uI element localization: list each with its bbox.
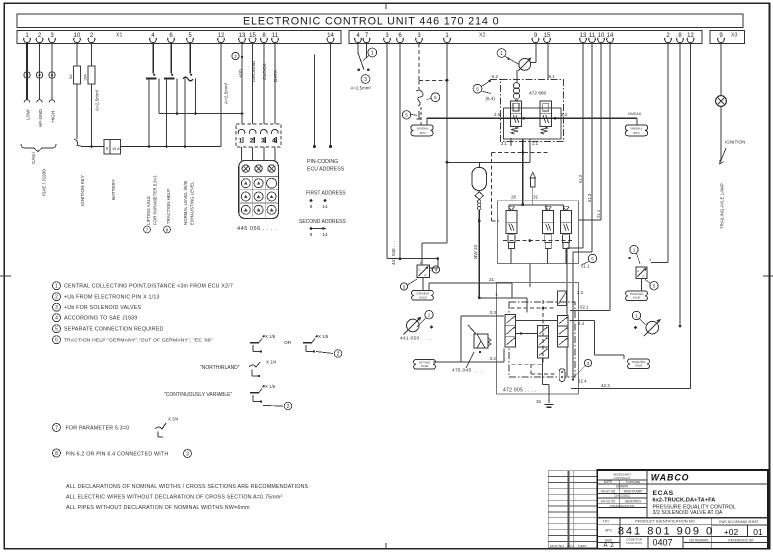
note marker 1 left psensor xyxy=(425,311,433,319)
wire diagnosis pin 3 to remote unit xyxy=(263,147,265,161)
CAN brace xyxy=(21,144,56,152)
pipe to sensor 441040 xyxy=(387,258,438,260)
svg-text:U: U xyxy=(418,268,420,272)
svg-text:5A: 5A xyxy=(69,74,73,79)
pressure regulator xyxy=(519,59,531,71)
pin X1/2 xyxy=(36,33,43,42)
wire diagnosis pin 2 to remote unit xyxy=(252,147,254,161)
svg-text:"CONTINUOUSLY VARIABLE": "CONTINUOUSLY VARIABLE" xyxy=(164,392,233,398)
ignition arrow xyxy=(720,148,727,164)
note marker 6 coding xyxy=(431,93,440,102)
battery box xyxy=(104,140,121,155)
svg-text:TRACTION HELP "GERMANY","OUT O: TRACTION HELP "GERMANY","OUT OF GERMANY"… xyxy=(64,338,213,344)
svg-text:P: P xyxy=(425,273,427,277)
lifting axle bellows xyxy=(414,360,436,370)
connector X2 strip xyxy=(349,30,702,43)
svg-text:5: 5 xyxy=(55,327,58,333)
svg-text:62.4: 62.4 xyxy=(578,379,587,384)
remote unit screw terminal xyxy=(255,165,262,172)
pin X1/11 xyxy=(272,33,279,42)
flexible link symbol xyxy=(416,90,423,106)
svg-text:MTC: MTC xyxy=(420,131,427,135)
wire X1/8 xyxy=(263,44,265,125)
frame fold tick top xyxy=(385,3,387,9)
svg-text:1: 1 xyxy=(55,284,58,290)
diagnosis connector dashed box xyxy=(236,124,281,147)
wire X1/2b lower xyxy=(91,84,93,147)
svg-text:FOR PARAMETER 5.3=0: FOR PARAMETER 5.3=0 xyxy=(66,425,130,431)
svg-text:42.2: 42.2 xyxy=(601,383,610,388)
svg-text:2.2: 2.2 xyxy=(561,112,568,117)
svg-text:AXLE: AXLE xyxy=(635,364,643,368)
pipe right sensor to bellows xyxy=(641,278,643,291)
supply main NW10 xyxy=(478,210,480,298)
wire diagnosis pin 1 to remote unit xyxy=(241,147,243,161)
svg-text:SECOND ADDRESS: SECOND ADDRESS xyxy=(299,219,346,225)
pin X2/9 xyxy=(532,33,539,42)
note marker 1 right psensor xyxy=(632,311,640,319)
dashed branch to X2/1 wire xyxy=(419,79,447,81)
svg-text:X1: X1 xyxy=(116,33,122,39)
svg-text:441 040 . . .: 441 040 . . . xyxy=(391,241,396,265)
svg-text:(6,4): (6,4) xyxy=(486,96,496,101)
svg-text:FUNCTION: FUNCTION xyxy=(626,541,642,545)
wire lamp down xyxy=(720,106,722,160)
svg-text:AXLE: AXLE xyxy=(633,296,641,300)
svg-text:ISAE / J1939: ISAE / J1939 xyxy=(42,169,47,196)
svg-text:5: 5 xyxy=(653,284,656,289)
pilot comp 2.2 xyxy=(558,291,567,306)
wire X1/10 lower xyxy=(76,84,78,135)
wire X2/12 riser xyxy=(690,44,692,389)
remote unit screw terminal xyxy=(268,165,275,172)
line filter symbol xyxy=(513,83,519,89)
wire X2/8 down xyxy=(679,44,681,327)
pipe lifting bellows xyxy=(433,361,436,363)
note marker 1 regulator xyxy=(497,49,506,58)
remote unit button xyxy=(254,179,263,188)
left niveau bellows xyxy=(411,125,433,136)
svg-text:4: 4 xyxy=(435,267,438,272)
svg-text:X 1/4: X 1/4 xyxy=(266,360,277,365)
svg-text:DATE: DATE xyxy=(604,480,612,484)
lower valves dashed tie xyxy=(503,240,573,242)
pin X2/15 xyxy=(544,33,551,42)
title block grid xyxy=(597,470,768,549)
dashed electrical link xyxy=(491,151,548,153)
pin X1/6 xyxy=(168,33,175,42)
svg-text:13: 13 xyxy=(580,33,587,39)
pressure sensor driving xyxy=(407,319,420,332)
svg-text:NIVEAU: NIVEAU xyxy=(628,112,642,116)
svg-text:3: 3 xyxy=(261,138,265,145)
wire X1/13 xyxy=(241,44,243,125)
svg-text:2.5: 2.5 xyxy=(494,112,501,117)
connector X3 strip xyxy=(710,30,745,43)
svg-text:2: 2 xyxy=(55,295,58,301)
ignition key switch xyxy=(74,135,78,146)
svg-text:21.1: 21.1 xyxy=(596,209,601,218)
note marker 5 right sensor xyxy=(650,282,658,290)
terminal ring xyxy=(36,72,42,78)
svg-text:+Ub: +Ub xyxy=(238,69,244,78)
note 1 marker xyxy=(53,282,61,290)
wire X2/1 down xyxy=(446,44,448,244)
svg-text:ECU ADDRESS: ECU ADDRESS xyxy=(307,167,345,173)
svg-text:CLOCK: CLOCK xyxy=(262,63,268,80)
svg-text:"NORTHIRLAND": "NORTHIRLAND" xyxy=(200,365,240,371)
pipe 42.2 xyxy=(571,388,691,390)
frame fold tick bottom xyxy=(385,543,387,549)
remote unit button xyxy=(241,192,250,201)
svg-text:3: 3 xyxy=(55,305,58,311)
pin X2/3 xyxy=(416,33,423,42)
switch lifting axle (X1/4) xyxy=(152,44,154,74)
pin X1/15 xyxy=(249,33,256,42)
svg-text:3: 3 xyxy=(649,258,651,262)
note marker 5 sensor-left xyxy=(400,283,407,290)
pin X2/14 xyxy=(607,33,614,42)
svg-text:PIN-CODING: PIN-CODING xyxy=(307,159,338,165)
svg-text:14: 14 xyxy=(322,232,328,238)
svg-text:FIRST ADDRESS: FIRST ADDRESS xyxy=(306,191,346,197)
svg-text:CAN /: CAN / xyxy=(31,151,36,164)
svg-text:ECAS: ECAS xyxy=(653,490,674,497)
note 3 marker xyxy=(53,303,61,311)
switch normal level (X1/5) xyxy=(189,44,191,74)
svg-text:CHECKED: CHECKED xyxy=(614,494,630,498)
wire X2/10 21.1 xyxy=(600,44,602,221)
svg-text:01: 01 xyxy=(753,527,763,537)
height sensor trailing xyxy=(636,267,647,278)
pin X2/13 xyxy=(580,33,587,42)
svg-text:TRACTION HELP: TRACTION HELP xyxy=(166,189,171,224)
pipe 3.3 xyxy=(461,315,504,317)
trailing axle lamp xyxy=(716,96,727,107)
svg-text:1: 1 xyxy=(635,313,638,318)
svg-text:445 056 . . . .: 445 056 . . . . xyxy=(237,226,277,232)
svg-text:STANDARDIZATION: STANDARDIZATION xyxy=(610,504,635,508)
pilot valve 31 xyxy=(545,207,551,211)
svg-text:841 801 909 0: 841 801 909 0 xyxy=(618,525,714,537)
wire X1/10 upper xyxy=(76,44,78,67)
svg-text:1.1: 1.1 xyxy=(532,141,539,146)
note marker 7 lifting xyxy=(144,226,151,233)
remote unit button xyxy=(267,192,276,201)
trailing axle bellows upper xyxy=(626,291,648,301)
svg-text:15: 15 xyxy=(544,33,551,39)
svg-text:X 1/6: X 1/6 xyxy=(318,334,329,339)
svg-text:5: 5 xyxy=(405,113,408,118)
svg-text:4: 4 xyxy=(55,316,58,322)
svg-text:12: 12 xyxy=(687,33,694,39)
+Ub collector line xyxy=(159,113,242,115)
wire X1/12 to bus corner xyxy=(220,44,222,147)
wire X2/14 to 62.1 xyxy=(609,44,611,311)
svg-text:6x2-TRUCK,DA+TA+FA: 6x2-TRUCK,DA+TA+FA xyxy=(653,498,716,504)
472905 panel box xyxy=(497,283,579,395)
svg-text:7: 7 xyxy=(55,425,58,431)
svg-text:31: 31 xyxy=(533,195,539,200)
note marker 4 sensor xyxy=(432,266,439,273)
svg-text:2.4: 2.4 xyxy=(578,321,585,326)
note 8 marker xyxy=(53,449,61,457)
svg-text:DATA: DATA xyxy=(273,69,279,82)
switch traction help (X1/6) xyxy=(170,44,172,74)
terminal ring xyxy=(49,72,55,78)
svg-text:NW 10: NW 10 xyxy=(473,245,478,259)
svg-text:DRAWN: DRAWN xyxy=(616,484,629,488)
pin X2/12 xyxy=(687,33,694,42)
svg-text:04-07-26: 04-07-26 xyxy=(601,489,615,493)
pipe 21 xyxy=(429,282,512,284)
svg-text:3: 3 xyxy=(186,451,189,457)
wire X2/9 to regulator xyxy=(535,44,537,63)
svg-text:REV: REV xyxy=(568,545,574,549)
dashed drop to left bellows xyxy=(420,107,422,125)
svg-text:3/2 SOLENOID VALVE AT DA: 3/2 SOLENOID VALVE AT DA xyxy=(653,510,723,516)
svg-text:X2: X2 xyxy=(479,33,485,39)
svg-text:14: 14 xyxy=(607,33,614,39)
air tank xyxy=(472,167,486,190)
svg-text:3P1: 3P1 xyxy=(605,528,613,533)
battery bus xyxy=(82,146,221,148)
svg-text:3: 3 xyxy=(364,77,367,83)
valve 472905 right xyxy=(557,315,568,347)
svg-text:ELECTRONIC CONTROL UNIT 446 1: ELECTRONIC CONTROL UNIT 446 170 214 0 xyxy=(243,16,499,28)
pipe 3.2 xyxy=(436,361,504,363)
svg-text:LIFTING AXLE: LIFTING AXLE xyxy=(146,196,151,225)
pin X1/8 xyxy=(261,33,268,42)
svg-text:P: P xyxy=(643,274,645,278)
svg-text:5: 5 xyxy=(476,87,479,92)
svg-text:1: 1 xyxy=(428,313,431,318)
pin X2/10 xyxy=(598,33,605,42)
pipe 3.3 riser xyxy=(460,316,462,362)
svg-text:12: 12 xyxy=(218,33,225,39)
svg-text:CENTRAL COLLECTING POINT,DISTA: CENTRAL COLLECTING POINT,DISTANCE <3m FR… xyxy=(64,284,233,290)
note marker 1 right sensor xyxy=(630,245,638,253)
svg-text:BATTERY: BATTERY xyxy=(111,179,116,200)
svg-text:X3: X3 xyxy=(731,33,737,39)
remote unit grid xyxy=(240,177,278,217)
svg-text:4: 4 xyxy=(272,138,276,145)
pipe 2.4 to trailing bellows xyxy=(570,320,595,322)
svg-text:OR: OR xyxy=(284,340,292,346)
wire X2/13 61.2 xyxy=(582,44,584,249)
svg-text:A=2,5mm²: A=2,5mm² xyxy=(351,86,372,91)
472905 dash-dot enclosure xyxy=(509,302,575,377)
svg-text:NORMAL LEVEL I/II/III: NORMAL LEVEL I/II/III xyxy=(183,181,188,225)
port 1.1 stub xyxy=(529,139,531,162)
second address jumper xyxy=(311,228,324,230)
wire diagnosis pin 4 to remote unit xyxy=(274,147,276,161)
pin X2/11 xyxy=(589,33,596,42)
svg-text:21: 21 xyxy=(489,277,495,282)
open connector end xyxy=(49,100,55,103)
note marker 1 supply xyxy=(368,48,377,57)
valve interconnect a xyxy=(516,320,558,322)
svg-text:14: 14 xyxy=(327,33,334,39)
svg-text:3.2: 3.2 xyxy=(490,356,497,361)
svg-text:15: 15 xyxy=(536,399,542,404)
note marker 3 62.4 xyxy=(584,359,591,366)
svg-text:X 1/6: X 1/6 xyxy=(265,384,276,389)
note 7 switch xyxy=(155,423,166,429)
svg-text:2: 2 xyxy=(337,351,340,357)
svg-text:62.1: 62.1 xyxy=(580,305,589,310)
svg-text:26: 26 xyxy=(511,195,517,200)
wire X2/11 61.3 xyxy=(591,44,593,253)
svg-text:ALL DECLARATIONS OF NOMINAL WI: ALL DECLARATIONS OF NOMINAL WIDTHS / CRO… xyxy=(66,484,309,490)
svg-text:14: 14 xyxy=(322,204,328,210)
terminal ring xyxy=(24,72,30,78)
remote unit button xyxy=(267,178,277,188)
wire X1/11 xyxy=(274,44,276,125)
remote unit button xyxy=(241,179,250,188)
supply pipe tank to valves xyxy=(447,161,530,163)
title block id row xyxy=(603,519,759,545)
diagnosis pin 3 xyxy=(261,129,268,133)
wire X1/2 HF-GND xyxy=(39,44,41,101)
svg-text:A=2,5mm²: A=2,5mm² xyxy=(95,89,100,111)
wire X2/6 down xyxy=(399,44,401,259)
port 2.1 stub xyxy=(510,138,512,146)
svg-text:15A: 15A xyxy=(84,74,88,81)
svg-text:5: 5 xyxy=(403,284,406,289)
svg-text:A=2,5mm²: A=2,5mm² xyxy=(224,82,229,104)
svg-text:X 1/5: X 1/5 xyxy=(265,334,276,339)
svg-text:MWSTKAMP: MWSTKAMP xyxy=(624,489,643,493)
pipe regulator down xyxy=(516,70,518,82)
valve group exits xyxy=(510,249,512,264)
frame fold tick left xyxy=(0,275,11,277)
diagnosis pin 4 xyxy=(272,129,279,133)
svg-text:U: U xyxy=(637,269,639,273)
gallery drop to left bellows xyxy=(426,118,428,125)
svg-text:2.1: 2.1 xyxy=(501,141,508,146)
svg-text:T.R.I: T.R.I xyxy=(603,519,610,523)
valve interconnect b xyxy=(516,333,538,335)
filter dots xyxy=(478,200,481,203)
driving axle bellows xyxy=(412,291,434,301)
pin X1/4 xyxy=(150,33,157,42)
connector X1 strip xyxy=(17,30,341,43)
wire X2/4 xyxy=(357,44,359,54)
svg-text:8: 8 xyxy=(310,204,313,210)
svg-text:1: 1 xyxy=(239,138,243,145)
wire X3/9 xyxy=(720,44,722,96)
svg-text:EXHAUSTING LEVEL: EXHAUSTING LEVEL xyxy=(190,181,195,225)
svg-text:472 905 . . . .: 472 905 . . . . xyxy=(503,388,537,394)
svg-text:MOD NO: MOD NO xyxy=(550,545,564,549)
note 7 marker xyxy=(53,424,61,432)
note 8 ref marker xyxy=(184,450,192,458)
lower valve header xyxy=(509,204,564,206)
svg-text:3: 3 xyxy=(587,361,590,366)
svg-text:ALL ELECTRIC WIRES WITHOUT DEC: ALL ELECTRIC WIRES WITHOUT DECLARATION O… xyxy=(66,495,282,501)
svg-text:DATE: DATE xyxy=(578,545,588,549)
note 4 marker xyxy=(53,314,61,322)
pipe 1 xyxy=(479,297,527,299)
svg-text:472 880: 472 880 xyxy=(529,91,547,97)
valve assembly inner box xyxy=(504,108,562,139)
pressure sensor trailing xyxy=(646,321,659,334)
note marker 5 64 xyxy=(473,84,482,93)
svg-text:+Ub FOR SOLENOID VALVES: +Ub FOR SOLENOID VALVES xyxy=(64,305,142,311)
svg-text:+02: +02 xyxy=(724,527,739,537)
supply switch contact xyxy=(358,53,364,70)
svg-text:2: 2 xyxy=(287,404,290,410)
pin X2/7 xyxy=(363,33,370,42)
svg-text:DWG NO DEMAND SHEET: DWG NO DEMAND SHEET xyxy=(719,520,759,524)
remote unit screw terminal xyxy=(242,165,249,172)
pin X1/2 xyxy=(88,33,95,42)
svg-text:IGNITION: IGNITION xyxy=(725,140,745,145)
pin X1/12 xyxy=(218,33,225,42)
wire X1/1 LOW xyxy=(26,44,28,101)
valve assembly dash-dot box xyxy=(501,79,564,141)
svg-text:FOR PARAMETER 5.5=1: FOR PARAMETER 5.5=1 xyxy=(153,175,158,225)
svg-text:15 A: 15 A xyxy=(112,147,120,151)
fuse 15A xyxy=(88,66,95,84)
svg-text:1: 1 xyxy=(495,292,498,297)
svg-text:5: 5 xyxy=(591,256,594,261)
svg-text:6: 6 xyxy=(434,95,437,100)
wire X2/7 xyxy=(366,44,368,59)
note marker 2b xyxy=(284,402,292,410)
wire X2/5 down xyxy=(547,44,549,80)
svg-text:04-12-20: 04-12-20 xyxy=(601,499,615,503)
svg-text:A 2: A 2 xyxy=(603,543,614,549)
svg-text:+Ub FROM ELECTRONIC PIN X 1/13: +Ub FROM ELECTRONIC PIN X 1/13 xyxy=(64,295,160,301)
svg-text:13: 13 xyxy=(239,33,246,39)
svg-text:3.3: 3.3 xyxy=(490,310,497,315)
svg-text:6: 6 xyxy=(55,338,58,344)
frame fold tick right xyxy=(763,275,773,277)
title block frame xyxy=(597,470,768,549)
note marker 5 51.1 xyxy=(588,254,596,262)
svg-text:ACCORDING TO SAE J1939: ACCORDING TO SAE J1939 xyxy=(64,316,137,322)
svg-text:1: 1 xyxy=(633,247,636,252)
pin X2/4 xyxy=(355,33,362,42)
pilot dashed lines 472905 xyxy=(510,307,554,309)
note 2 marker xyxy=(53,293,61,301)
wire X2/3 down xyxy=(386,44,388,259)
note marker 2 +Ub xyxy=(232,52,239,59)
solenoid valve 472880-left xyxy=(510,101,521,126)
right niveau bellows xyxy=(625,125,647,136)
svg-text:15: 15 xyxy=(249,33,256,39)
pin X1/1 xyxy=(24,33,31,42)
svg-text:10: 10 xyxy=(598,33,605,39)
note marker 3 supply xyxy=(361,75,370,84)
svg-text:PIN 6.2 OR PIN 6.4 CONNECTED W: PIN 6.2 OR PIN 6.4 CONNECTED WITH xyxy=(66,452,169,458)
remote unit button xyxy=(254,192,263,201)
remote unit button xyxy=(241,205,250,214)
svg-text:11: 11 xyxy=(272,33,279,39)
wire X1/2b upper xyxy=(91,44,93,67)
svg-text:HIGH: HIGH xyxy=(51,111,56,122)
gallery drop to right bellows xyxy=(636,119,638,126)
ECU title banner box xyxy=(17,14,743,28)
pin X2/3 xyxy=(384,33,391,42)
silencer xyxy=(530,173,536,179)
svg-text:AXLE: AXLE xyxy=(419,295,427,299)
svg-text:10: 10 xyxy=(74,33,81,39)
pin X2/6 xyxy=(397,33,404,42)
svg-text:SURNAME: SURNAME xyxy=(626,480,641,484)
